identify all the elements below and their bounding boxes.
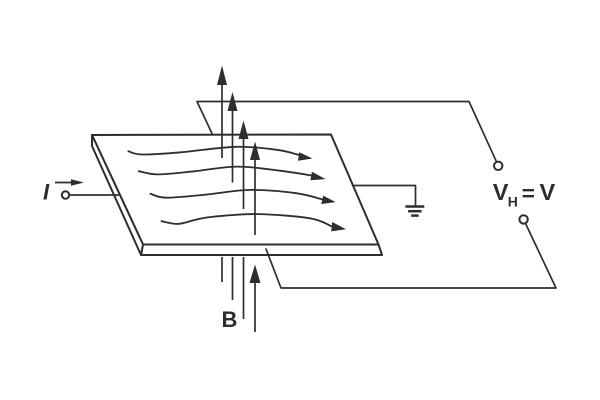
svg-text:=: = bbox=[522, 181, 535, 206]
svg-text:V: V bbox=[493, 179, 509, 205]
svg-text:I: I bbox=[43, 180, 50, 205]
svg-text:V: V bbox=[540, 179, 556, 205]
svg-text:H: H bbox=[508, 194, 518, 210]
svg-text:B: B bbox=[222, 307, 238, 332]
